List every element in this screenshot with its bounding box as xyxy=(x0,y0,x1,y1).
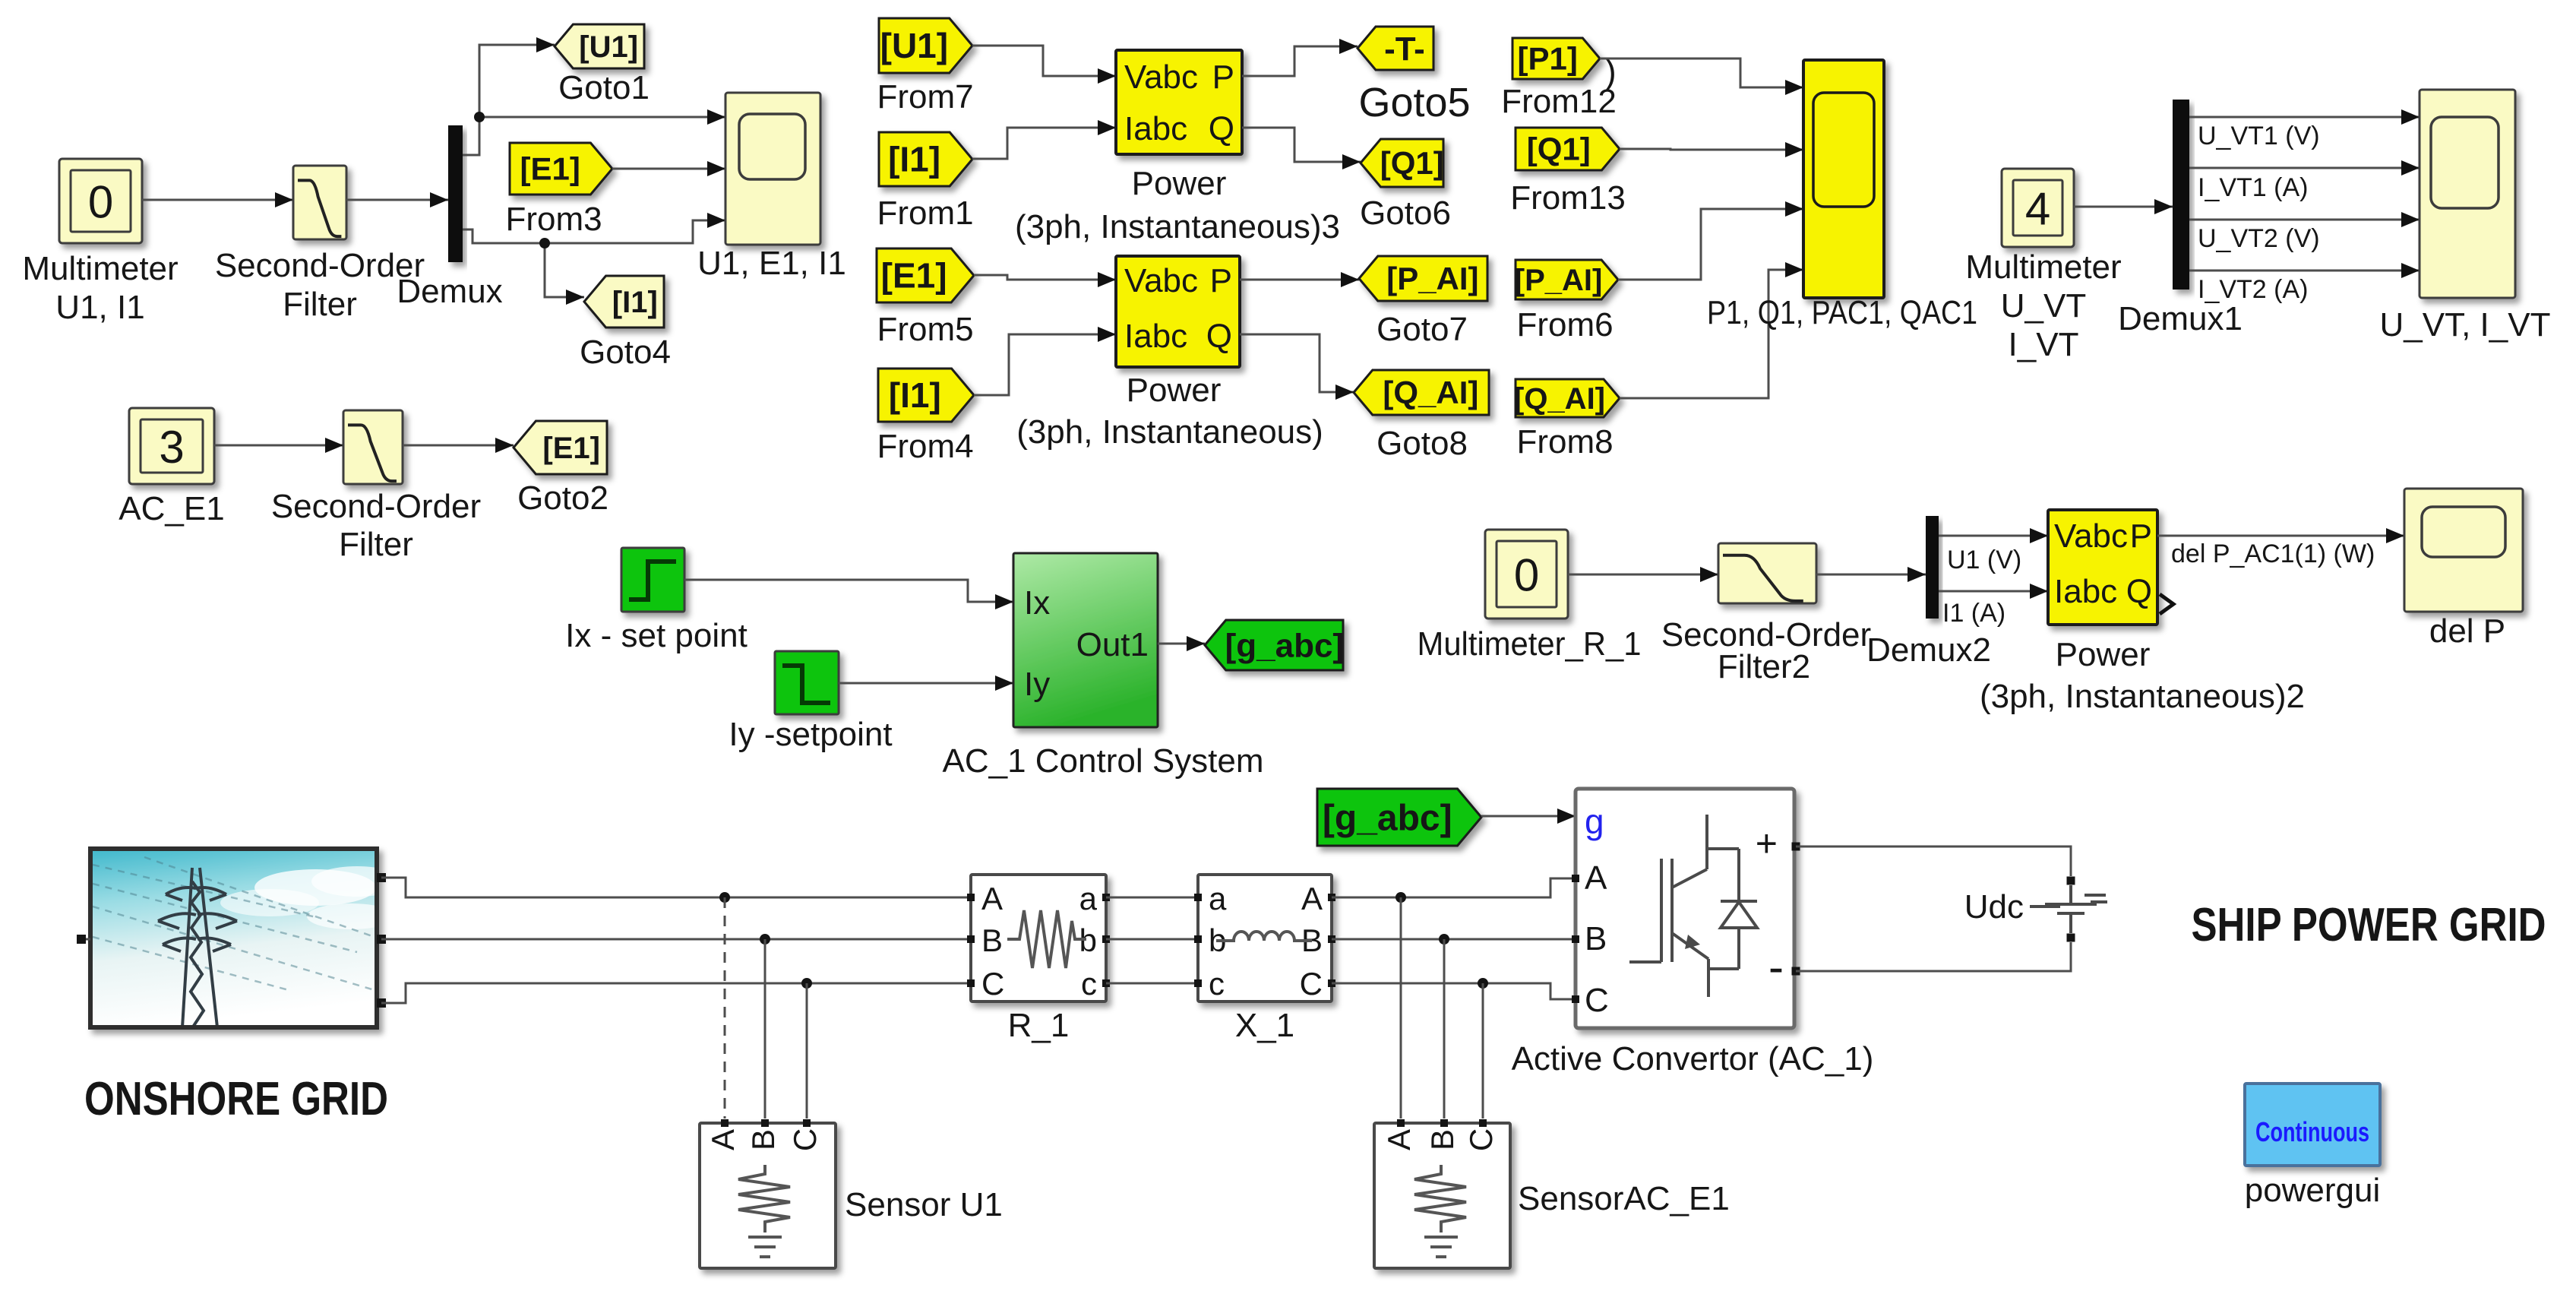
resistor icon in R_1 xyxy=(1007,910,1086,968)
svg-text:Demux1: Demux1 xyxy=(2118,300,2243,337)
svg-text:From7: From7 xyxy=(877,78,973,115)
svg-text:Ix: Ix xyxy=(1024,584,1050,622)
svg-text:Goto6: Goto6 xyxy=(1360,195,1451,232)
svg-text:A: A xyxy=(1301,881,1323,916)
wire onshore C to R_1 C (junction to Sensor U1 C) xyxy=(381,983,971,1003)
svg-text:[U1]: [U1] xyxy=(579,30,638,64)
from tag From1 [I1] xyxy=(879,132,972,186)
svg-text:B: B xyxy=(1585,920,1607,957)
subsystem AC_1 Control System xyxy=(1013,553,1158,727)
svg-text:Power: Power xyxy=(1132,165,1227,202)
svg-text:[g_abc]: [g_abc] xyxy=(1225,627,1344,664)
svg-text:U1 (V): U1 (V) xyxy=(1947,546,2021,574)
wire Demux1 out1 U_VT1 (V) xyxy=(2189,116,2420,119)
svg-text:a: a xyxy=(1079,881,1098,916)
wire junction C down to Sensor U1 xyxy=(806,983,808,1119)
svg-text:Goto7: Goto7 xyxy=(1377,311,1468,348)
svg-text:[I1]: [I1] xyxy=(888,140,940,179)
svg-text:P: P xyxy=(1210,262,1232,299)
svg-text:From3: From3 xyxy=(505,201,602,238)
wire Power2 P to del P scope, signal label del P_AC1(1) (W) xyxy=(2157,535,2404,537)
svg-text:[E1]: [E1] xyxy=(881,256,947,296)
svg-text:[I1]: [I1] xyxy=(889,375,941,415)
svg-text:Iy -setpoint: Iy -setpoint xyxy=(729,716,892,753)
goto tag Goto8 [Q_AI] xyxy=(1354,370,1489,415)
svg-text:[P1]: [P1] xyxy=(1517,41,1577,77)
scope P1, Q1, PAC1, QAC1 xyxy=(1803,60,1884,298)
step block Iy -setpoint xyxy=(775,651,839,714)
svg-text:0: 0 xyxy=(1514,550,1539,601)
svg-text:From5: From5 xyxy=(877,311,973,348)
from tag From7 [U1] xyxy=(879,18,972,73)
goto tag Goto4 [I1] xyxy=(584,276,664,327)
from tag From4 [I1] xyxy=(878,369,974,422)
wire Power Q to Goto8 xyxy=(1240,334,1354,392)
wire Power P to Goto7 xyxy=(1240,279,1359,281)
block AC_E1 display '3' xyxy=(129,408,214,484)
svg-text:Iy: Iy xyxy=(1024,666,1050,703)
goto tag Goto1 [U1] xyxy=(555,24,644,68)
block X_1 three-phase series inductive branch xyxy=(1198,875,1332,1001)
svg-text:From6: From6 xyxy=(1516,306,1613,343)
svg-text:Vabc: Vabc xyxy=(1124,262,1198,299)
wire Demux out1 to Goto1 and scope (junction) xyxy=(463,45,555,155)
demux Demux2 xyxy=(1926,516,1939,619)
svg-text:U_VT2 (V): U_VT2 (V) xyxy=(2198,224,2320,253)
wire From3 to scope xyxy=(612,168,725,170)
svg-text:Sensor U1: Sensor U1 xyxy=(845,1186,1003,1223)
wire Iy setpoint to control Iy xyxy=(839,682,1013,685)
block Second-Order Filter (2) xyxy=(343,410,403,484)
svg-text:I_VT: I_VT xyxy=(2009,326,2079,363)
svg-text:B: B xyxy=(1424,1129,1460,1150)
svg-text:B: B xyxy=(981,922,1003,958)
svg-text:AC_E1: AC_E1 xyxy=(119,490,224,527)
svg-text:[Q1]: [Q1] xyxy=(1380,145,1444,181)
wire From8 to scope in4 xyxy=(1620,270,1803,398)
svg-text:R_1: R_1 xyxy=(1008,1007,1070,1044)
svg-text:Vabc: Vabc xyxy=(2054,517,2128,555)
block Power (3ph, Instantaneous) xyxy=(1116,256,1240,367)
svg-text:C: C xyxy=(1300,966,1323,1001)
svg-text:X_1: X_1 xyxy=(1235,1007,1294,1044)
svg-text:Goto5: Goto5 xyxy=(1358,80,1470,125)
wire Demux2 out2 I1 (A) xyxy=(1939,590,2048,593)
svg-text:A: A xyxy=(1381,1129,1417,1150)
from tag From5 [E1] xyxy=(877,248,974,302)
svg-text:Filter2: Filter2 xyxy=(1718,648,1810,685)
svg-text:U1, E1, I1: U1, E1, I1 xyxy=(697,245,846,282)
wire Filter to Demux xyxy=(346,199,448,201)
wire X_1 A to convertor A (junction to SensorAC_E1) xyxy=(1332,878,1576,897)
wire convertor + to Udc battery top xyxy=(1796,846,2071,876)
svg-text:Second-Order: Second-Order xyxy=(215,247,425,284)
svg-text:Out1: Out1 xyxy=(1076,626,1149,663)
svg-text:[U1]: [U1] xyxy=(880,26,948,65)
svg-text:Power: Power xyxy=(2056,636,2151,673)
wire onshore A to R_1 A (junction to Sensor U1 A) xyxy=(381,878,971,897)
svg-text:Iabc: Iabc xyxy=(1124,110,1187,147)
scope U1, E1, I1 xyxy=(725,93,820,245)
block powergui Continuous xyxy=(2245,1084,2380,1166)
wire Out1 to g_abc goto tag xyxy=(1158,643,1205,645)
svg-text:B: B xyxy=(745,1129,781,1150)
svg-text:[E1]: [E1] xyxy=(520,151,580,187)
goto tag Goto7 [P_AI] xyxy=(1359,256,1487,301)
goto tag Goto6 [Q1] xyxy=(1361,139,1443,187)
svg-text:A: A xyxy=(981,881,1003,916)
goto tag Goto2 [E1] xyxy=(514,421,607,474)
svg-text:U_VT: U_VT xyxy=(2001,287,2086,324)
svg-text:del P_AC1(1) (W): del P_AC1(1) (W) xyxy=(2171,539,2375,568)
block Multimeter U_VT display '4' xyxy=(2002,169,2074,247)
wire X_1 C to convertor C (junction to SensorAC_E1) xyxy=(1332,983,1576,999)
wire g_abc to convertor g input xyxy=(1481,815,1576,818)
wire Multimeter_R_1 to Filter2 xyxy=(1568,574,1718,576)
svg-text:Active Convertor (AC_1): Active Convertor (AC_1) xyxy=(1512,1040,1874,1077)
wire Multimeter 4 to Demux1 xyxy=(2074,206,2173,208)
ports on onshore grid right xyxy=(377,873,386,882)
svg-text:0: 0 xyxy=(88,177,113,228)
block SensorAC_E1 voltage sensor xyxy=(1374,1123,1510,1268)
svg-text:P: P xyxy=(1212,59,1234,96)
svg-text:Filter: Filter xyxy=(339,526,413,563)
wire From4 to Power Iabc xyxy=(974,334,1116,395)
block Multimeter U1,I1 display '0' xyxy=(59,159,142,243)
svg-text:Udc: Udc xyxy=(1964,888,2024,926)
svg-text:(3ph, Instantaneous)2: (3ph, Instantaneous)2 xyxy=(1980,678,2305,715)
resistor + ground icon SensorAC_E1 xyxy=(1414,1165,1466,1257)
svg-text:U_VT1 (V): U_VT1 (V) xyxy=(2198,122,2320,150)
wire junction down to SensorAC_E1 B xyxy=(1443,939,1446,1119)
svg-text:Multimeter_R_1: Multimeter_R_1 xyxy=(1418,625,1642,663)
wire junction B down to Sensor U1 xyxy=(764,939,766,1119)
svg-text:[E1]: [E1] xyxy=(542,432,600,465)
ports Sensor U1 xyxy=(721,1119,729,1127)
from tag [g_abc] green feeding convertor g xyxy=(1317,789,1481,846)
svg-text:Filter: Filter xyxy=(283,286,357,323)
block Multimeter_R_1 display '0' xyxy=(1485,530,1568,619)
svg-text:Ix - set point: Ix - set point xyxy=(565,617,748,654)
demux Demux xyxy=(448,125,463,262)
wire Demux1 out4 I_VT2 (A) xyxy=(2189,270,2420,272)
wire R_1 c to X_1 c xyxy=(1106,982,1198,985)
svg-text:Q: Q xyxy=(1206,318,1232,355)
svg-text:A: A xyxy=(1585,859,1607,897)
svg-text:SensorAC_E1: SensorAC_E1 xyxy=(1518,1180,1730,1217)
wire Filter to Goto2 xyxy=(403,445,514,447)
block Second-Order Filter xyxy=(293,166,346,239)
battery Udc DC source xyxy=(2067,877,2075,885)
wire From6 to scope in3 xyxy=(1618,209,1803,280)
svg-text:C: C xyxy=(787,1128,823,1151)
svg-text:C: C xyxy=(1585,982,1609,1019)
svg-text:+: + xyxy=(1756,822,1778,865)
svg-text:From1: From1 xyxy=(877,195,973,232)
svg-text:Goto2: Goto2 xyxy=(517,479,608,517)
wire onshore B to R_1 B (junction to Sensor U1 B) xyxy=(381,938,971,941)
svg-text:-T-: -T- xyxy=(1384,30,1425,68)
svg-text:(3ph, Instantaneous)3: (3ph, Instantaneous)3 xyxy=(1015,208,1340,245)
svg-text:SHIP POWER GRID: SHIP POWER GRID xyxy=(2192,899,2546,951)
IGBT and diode icon inside convertor xyxy=(1629,815,1757,997)
svg-text:Power: Power xyxy=(1127,372,1222,409)
svg-text:Goto1: Goto1 xyxy=(558,69,650,106)
wire Demux2 out1 U1 (V) xyxy=(1939,535,2048,537)
svg-text:Demux2: Demux2 xyxy=(1866,631,1991,669)
wire From1 to Power3 Iabc xyxy=(972,128,1116,159)
svg-text:-: - xyxy=(1768,941,1784,992)
svg-text:Continuous: Continuous xyxy=(2255,1116,2369,1147)
block Power (3ph, Instantaneous)3 xyxy=(1116,50,1242,154)
block Sensor U1 voltage sensor xyxy=(700,1123,836,1268)
svg-text:3: 3 xyxy=(159,422,184,473)
wire From7 to Power3 Vabc xyxy=(972,46,1116,76)
svg-text:Q: Q xyxy=(2126,573,2152,610)
svg-text:Iabc: Iabc xyxy=(1124,318,1187,355)
svg-text:P: P xyxy=(2130,517,2152,555)
wire R_1 b to X_1 b xyxy=(1106,938,1198,941)
svg-text:Demux: Demux xyxy=(397,273,502,310)
wire Ix set point to control Ix xyxy=(684,580,1013,602)
svg-text:4: 4 xyxy=(2025,184,2050,235)
from tag From13 [Q1] xyxy=(1516,128,1620,170)
svg-text:C: C xyxy=(981,966,1004,1001)
ports convertor + - xyxy=(1792,843,1800,851)
ports SensorAC_E1 xyxy=(1397,1119,1405,1127)
svg-text:powergui: powergui xyxy=(2245,1172,2381,1209)
wire Filter2 to Demux2 xyxy=(1816,574,1926,576)
svg-text:Second-Order: Second-Order xyxy=(271,488,481,525)
port on onshore grid left xyxy=(77,935,86,944)
block Active Convertor (AC_1) xyxy=(1576,789,1794,1028)
svg-text:del P: del P xyxy=(2429,612,2505,650)
svg-text:From8: From8 xyxy=(1516,423,1613,460)
block Power (3ph, Instantaneous)2 xyxy=(2048,510,2157,625)
svg-text:Iabc: Iabc xyxy=(2054,573,2117,610)
svg-text:g: g xyxy=(1585,802,1604,841)
wire From12 to scope in1 xyxy=(1600,59,1803,87)
svg-text:From13: From13 xyxy=(1510,179,1626,217)
svg-text:AC_1 Control System: AC_1 Control System xyxy=(942,742,1263,780)
svg-text:(3ph, Instantaneous): (3ph, Instantaneous) xyxy=(1016,413,1323,451)
goto tag Goto5 -T- xyxy=(1358,27,1433,70)
from tag From3 [E1] xyxy=(510,143,612,195)
svg-text:I_VT1 (A): I_VT1 (A) xyxy=(2198,173,2308,202)
goto tag [g_abc] green xyxy=(1205,620,1343,670)
svg-text:Multimeter: Multimeter xyxy=(1965,248,2121,286)
demux Demux1 xyxy=(2173,100,2189,290)
block R_1 three-phase series resistive branch xyxy=(971,875,1106,1001)
svg-text:a: a xyxy=(1209,881,1227,916)
from tag From6 [P_AI] xyxy=(1516,260,1618,299)
wire AC_E1 to Second-Order Filter (2) xyxy=(214,445,343,447)
svg-text:Vabc: Vabc xyxy=(1124,59,1198,96)
ports convertor A B C xyxy=(1572,875,1579,882)
svg-text:U1, I1: U1, I1 xyxy=(55,289,144,326)
wire Demux1 out3 U_VT2 (V) xyxy=(2189,219,2420,221)
block Second-Order Filter2 xyxy=(1718,543,1816,603)
wire junction down to SensorAC_E1 A xyxy=(1400,897,1402,1119)
svg-text:I_VT2 (A): I_VT2 (A) xyxy=(2198,275,2308,304)
wire junction A down to Sensor U1 (dashed) xyxy=(724,897,726,1119)
wire X_1 B to convertor B (junction to SensorAC_E1) xyxy=(1332,938,1576,941)
svg-text:Goto8: Goto8 xyxy=(1377,425,1468,462)
svg-text:C: C xyxy=(1463,1128,1499,1151)
svg-text:A: A xyxy=(705,1129,741,1150)
svg-text:ONSHORE GRID: ONSHORE GRID xyxy=(84,1073,388,1125)
resistor + ground icon Sensor U1 xyxy=(738,1165,790,1257)
wire Power3 Q to Goto6 xyxy=(1242,128,1361,162)
svg-text:[Q_AI]: [Q_AI] xyxy=(1383,375,1478,410)
svg-text:[P_AI]: [P_AI] xyxy=(1515,264,1603,297)
wire From13 to scope in2 xyxy=(1620,149,1803,150)
scope U_VT, I_VT xyxy=(2420,90,2515,298)
svg-text:Q: Q xyxy=(1209,110,1234,147)
wire convertor - to Udc battery bottom xyxy=(1796,942,2071,971)
svg-text:U_VT, I_VT: U_VT, I_VT xyxy=(2380,306,2551,343)
wire R_1 a to X_1 a xyxy=(1106,897,1198,899)
svg-text:Goto4: Goto4 xyxy=(580,334,671,371)
from tag From12 [P1] xyxy=(1512,38,1600,79)
svg-text:[P_AI]: [P_AI] xyxy=(1386,261,1478,296)
svg-text:From4: From4 xyxy=(877,428,973,465)
ports X_1 xyxy=(1194,894,1202,901)
wire Multimeter to Second-Order Filter xyxy=(142,199,293,201)
svg-text:[g_abc]: [g_abc] xyxy=(1323,798,1452,838)
inductor icon in X_1 xyxy=(1216,932,1312,941)
wire From5 to Power Vabc xyxy=(974,275,1116,280)
svg-text:c: c xyxy=(1081,966,1097,1001)
svg-text:Multimeter: Multimeter xyxy=(22,250,178,287)
svg-text:P1, Q1, PAC1, QAC1: P1, Q1, PAC1, QAC1 xyxy=(1707,294,1977,331)
wire Demux1 out2 I_VT1 (A) xyxy=(2189,167,2420,169)
ports R_1 xyxy=(967,894,975,901)
from tag From8 [Q_AI] xyxy=(1516,379,1620,417)
svg-text:From12: From12 xyxy=(1501,83,1617,120)
svg-text:[Q1]: [Q1] xyxy=(1527,131,1591,167)
svg-text:c: c xyxy=(1209,966,1225,1001)
svg-text:[Q_AI]: [Q_AI] xyxy=(1514,382,1605,416)
unconnected output arrow on Q xyxy=(2160,594,2173,614)
wire Demux out2 to scope and Goto4 (junction) xyxy=(463,220,725,243)
wire Power3 P to Goto5 xyxy=(1242,46,1358,76)
wire junction down to SensorAC_E1 C xyxy=(1482,983,1484,1119)
scope del P xyxy=(2404,489,2523,612)
svg-text:[I1]: [I1] xyxy=(612,286,658,319)
step block Ix - set point xyxy=(621,548,684,612)
svg-text:I1 (A): I1 (A) xyxy=(1942,599,2005,628)
